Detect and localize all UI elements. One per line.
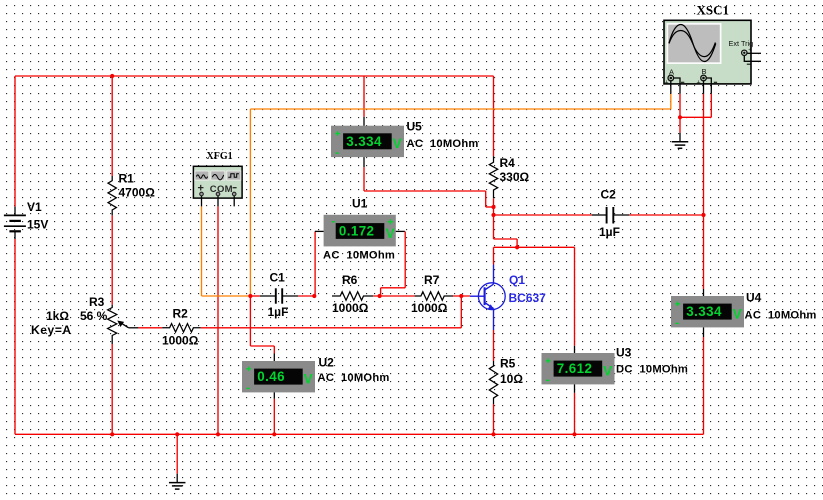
svg-text:R4: R4: [500, 156, 516, 170]
svg-text:V1: V1: [27, 200, 42, 214]
svg-text:U5: U5: [407, 120, 423, 134]
svg-text:+: +: [748, 47, 752, 54]
svg-text:COM: COM: [210, 184, 233, 195]
svg-text:1000Ω: 1000Ω: [162, 334, 199, 348]
svg-text:330Ω: 330Ω: [500, 170, 530, 184]
svg-text:Q1: Q1: [509, 273, 525, 287]
svg-text:R3: R3: [89, 295, 105, 309]
svg-text:3.334: 3.334: [346, 134, 382, 149]
svg-text:1000Ω: 1000Ω: [332, 301, 369, 315]
svg-text:V: V: [386, 226, 395, 241]
svg-text:1µF: 1µF: [599, 225, 620, 239]
svg-text:U4: U4: [746, 291, 762, 305]
svg-text:U1: U1: [352, 197, 368, 211]
svg-text:V: V: [304, 371, 313, 386]
svg-text:1000Ω: 1000Ω: [411, 301, 448, 315]
svg-text:R6: R6: [342, 273, 358, 287]
svg-text:+: +: [697, 80, 701, 87]
svg-text:AC 10MOhm: AC 10MOhm: [323, 250, 395, 262]
svg-text:C2: C2: [601, 188, 617, 202]
svg-text:V: V: [733, 306, 742, 321]
svg-text:Key=A: Key=A: [31, 323, 72, 337]
svg-text:R2: R2: [173, 307, 189, 321]
svg-text:U2: U2: [319, 356, 335, 370]
svg-text:0.172: 0.172: [339, 224, 375, 239]
svg-text:R1: R1: [119, 171, 135, 185]
svg-text:XSC1: XSC1: [697, 2, 730, 17]
svg-text:U3: U3: [616, 346, 632, 360]
svg-text:AC 10MOhm: AC 10MOhm: [407, 138, 479, 150]
svg-text:XFG1: XFG1: [207, 151, 233, 162]
svg-text:AC 10MOhm: AC 10MOhm: [745, 310, 817, 322]
svg-text:BC637: BC637: [509, 291, 547, 305]
svg-text:V: V: [603, 363, 612, 378]
svg-text:56 %: 56 %: [80, 309, 108, 323]
svg-text:15V: 15V: [27, 218, 48, 232]
svg-text:7.612: 7.612: [557, 361, 593, 376]
svg-text:R5: R5: [500, 357, 516, 371]
svg-text:V: V: [393, 136, 402, 151]
svg-text:R7: R7: [424, 273, 440, 287]
svg-text:0.46: 0.46: [257, 369, 285, 384]
svg-text:1kΩ: 1kΩ: [46, 309, 69, 323]
svg-text:+: +: [665, 80, 669, 87]
svg-text:C1: C1: [270, 271, 286, 285]
svg-text:AC 10MOhm: AC 10MOhm: [318, 372, 390, 384]
svg-text:DC 10MOhm: DC 10MOhm: [616, 364, 688, 376]
svg-text:1µF: 1µF: [268, 305, 289, 319]
svg-text:3.334: 3.334: [686, 304, 722, 319]
svg-text:4700Ω: 4700Ω: [119, 186, 156, 200]
svg-text:10Ω: 10Ω: [500, 372, 523, 386]
